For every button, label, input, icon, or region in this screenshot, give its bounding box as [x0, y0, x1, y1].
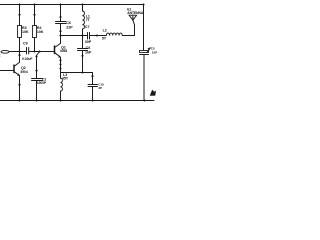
- svg-text:4058: 4058: [60, 49, 68, 53]
- svg-text:10K: 10K: [22, 30, 29, 34]
- svg-text:ANTENNA: ANTENNA: [127, 11, 144, 15]
- svg-text:C8: C8: [86, 46, 91, 50]
- svg-text:0.02uF: 0.02uF: [22, 57, 32, 61]
- svg-text:3904: 3904: [20, 70, 28, 74]
- svg-text:3P: 3P: [98, 86, 102, 90]
- svg-text:22P: 22P: [66, 25, 73, 29]
- svg-text:1000P: 1000P: [37, 81, 47, 85]
- svg-text:C6: C6: [66, 21, 71, 25]
- svg-text:L2: L2: [103, 28, 107, 32]
- svg-text:45T: 45T: [62, 77, 69, 81]
- svg-text:10P: 10P: [152, 51, 157, 55]
- svg-text:C7: C7: [85, 25, 90, 29]
- svg-text:16P: 16P: [85, 50, 92, 54]
- svg-text:C9: C9: [23, 41, 28, 45]
- svg-text:10K: 10K: [37, 30, 44, 34]
- svg-text:30P: 30P: [85, 40, 92, 44]
